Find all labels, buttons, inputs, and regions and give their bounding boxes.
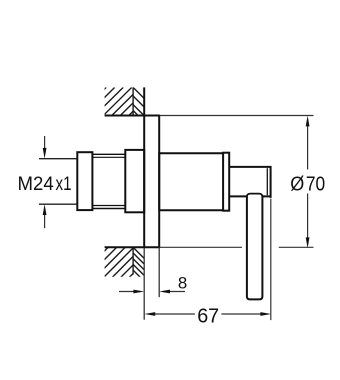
- svg-text:M24: M24: [18, 174, 55, 195]
- dimension 67: line with outward arrows: [151, 313, 195, 315]
- dimension 8: left arrow line: [119, 291, 140, 293]
- wall surface / flange left edge vertical line: [143, 87, 145, 247]
- thread section outer lines: [92, 153, 125, 155]
- svg-text:67: 67: [197, 305, 219, 327]
- dimension M24x1: thread pipe stub bottom line / extension: [39, 203, 77, 205]
- flange right edge: [158, 116, 160, 248]
- svg-text:70: 70: [306, 173, 325, 195]
- wall top: chevron peak line: [132, 87, 134, 115]
- lever handle hub fillet: [247, 194, 263, 197]
- lever handle bar: [247, 195, 263, 299]
- wall section bottom (hatched): [79, 247, 161, 298]
- flange bottom edge + diameter-70 bottom extension line: [105, 246, 160, 248]
- M24 dimension line bottom segment + up arrow: [44, 214, 46, 228]
- wall bottom: chevron peak line: [132, 247, 134, 274]
- dimension 8: right arrow line: [163, 291, 185, 293]
- M24 dimension line top segment + down arrow: [44, 136, 46, 149]
- thread section inner lines: [92, 156, 125, 158]
- inlet collar (left band): [77, 152, 92, 210]
- extension line below flange right edge (for 8 dim): [158, 247, 160, 297]
- 67 right extension line (from stem end): [270, 199, 272, 321]
- svg-text:8: 8: [178, 274, 187, 293]
- ring nut at body end: [223, 153, 229, 211]
- svg-text:Ø: Ø: [290, 173, 304, 195]
- stem end cap inner line: [266, 168, 268, 195]
- dimension M24x1: thread pipe stub top line / extension: [39, 158, 77, 160]
- valve body: [159, 153, 223, 210]
- extension line below wall (for 8 and 67 dims): [143, 247, 145, 319]
- wall-side collar (right band): [125, 150, 144, 212]
- dimension diameter 70: vertical line segments with outward arrows: [307, 126, 309, 170]
- stem cylinder: [229, 167, 270, 198]
- wall section top (hatched): [78, 87, 161, 138]
- svg-text:x1: x1: [56, 174, 72, 195]
- flange top edge + diameter-70 top extension line: [105, 115, 160, 117]
